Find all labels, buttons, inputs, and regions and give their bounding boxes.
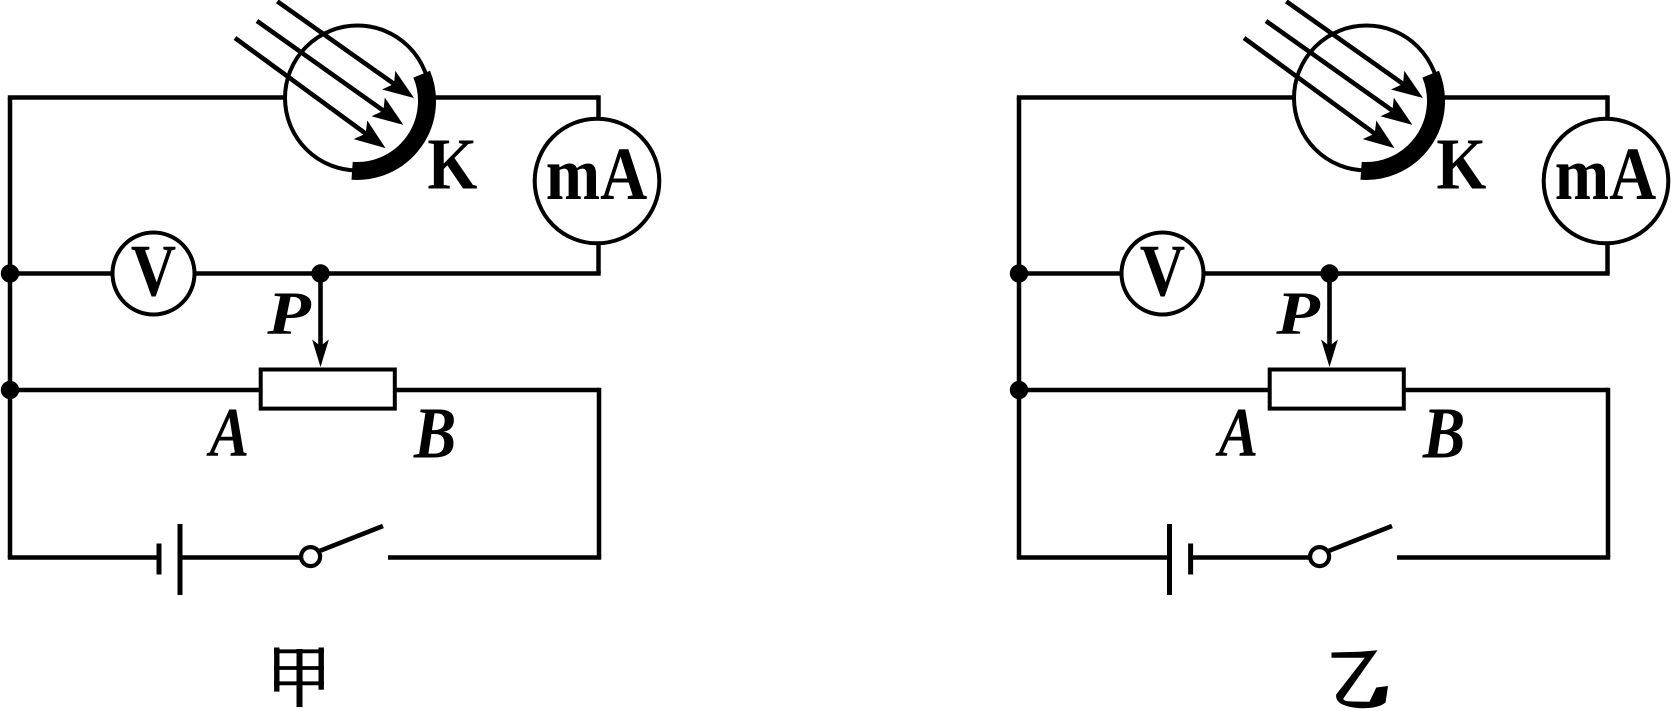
wire: battery to switch <box>1191 555 1311 560</box>
light ray 2 (middle) with arrowhead <box>1266 21 1396 113</box>
wiper arrow P (slider of rheostat) <box>1327 274 1332 349</box>
wire: top horizontal from left rail to milliammeter branch <box>8 95 599 100</box>
light ray 3 (bottom) with arrowhead <box>1244 38 1378 136</box>
wire: right rail vertical <box>597 388 602 558</box>
junction node: wiper tap on voltmeter row <box>1320 264 1338 282</box>
junction node: left rail / rheostat row <box>1 381 19 399</box>
light ray 3 (bottom) with arrowhead <box>235 38 369 136</box>
wire: bottom row left segment to battery <box>1017 555 1168 560</box>
wire: left rail vertical <box>1017 98 1022 558</box>
svg-text:B: B <box>413 392 456 473</box>
svg-text:A: A <box>206 395 249 473</box>
phototube envelope (vacuum photocell) <box>1294 26 1439 171</box>
label 甲 drawn as strokes <box>274 648 324 708</box>
wire: battery to switch <box>180 555 302 560</box>
circuit 甲 (left, forward-biased battery) <box>1 1 660 595</box>
switch pivot contact <box>1310 547 1329 566</box>
wire: mA bottom to voltmeter row <box>1605 242 1610 274</box>
circuit 乙 (right, reverse-biased battery) <box>1010 1 1669 595</box>
svg-text:P: P <box>266 281 311 348</box>
cathode K curved electrode <box>1361 74 1436 171</box>
junction node: left rail / voltmeter row <box>1 264 19 282</box>
light ray 2 (middle) with arrowhead <box>257 21 387 113</box>
svg-text:mA: mA <box>1555 133 1657 216</box>
wiper arrow P (slider of rheostat) <box>318 274 323 349</box>
svg-text:V: V <box>1140 230 1185 312</box>
voltmeter V <box>113 233 195 315</box>
label 乙 drawn as a filled path <box>1332 650 1389 708</box>
battery positive plate (long) <box>1167 524 1172 595</box>
battery negative plate (short) <box>157 544 162 575</box>
milliammeter mA <box>535 119 660 244</box>
junction node: left rail / rheostat row <box>1010 381 1028 399</box>
wire: mA bottom to voltmeter row <box>596 242 601 274</box>
svg-text:mA: mA <box>546 133 648 216</box>
phototube envelope (vacuum photocell) <box>285 26 430 171</box>
junction node: left rail / voltmeter row <box>1010 264 1028 282</box>
cathode K curved electrode <box>352 74 427 171</box>
rheostat resistor body A-B <box>261 370 395 409</box>
switch pivot contact <box>301 547 320 566</box>
svg-text:K: K <box>1436 124 1486 205</box>
wire: bottom row right segment from switch to right rail <box>388 555 601 560</box>
svg-text:V: V <box>131 230 176 312</box>
wire: voltmeter row horizontal <box>8 271 601 276</box>
svg-text:B: B <box>1422 392 1465 473</box>
wire: voltmeter row horizontal <box>1017 271 1610 276</box>
rheostat resistor body A-B <box>1270 370 1404 409</box>
wire: vertical drop into mA meter top <box>596 95 601 122</box>
wire: left rail vertical <box>8 98 13 558</box>
junction node: wiper tap on voltmeter row <box>311 264 329 282</box>
milliammeter mA <box>1544 119 1669 244</box>
wire: bottom row right segment from switch to right rail <box>1397 555 1610 560</box>
wire: right rail vertical <box>1606 388 1611 558</box>
battery negative plate (short) <box>1188 544 1193 575</box>
light ray 1 (top) with arrowhead <box>1286 1 1406 86</box>
wire: rheostat row horizontal <box>8 388 599 393</box>
voltmeter V <box>1122 233 1204 315</box>
wire: rheostat row horizontal <box>1017 388 1608 393</box>
battery positive plate (long) <box>178 524 183 595</box>
wire: vertical drop into mA meter top <box>1605 95 1610 122</box>
svg-text:K: K <box>427 124 477 205</box>
switch lever (open) <box>1329 526 1393 551</box>
switch lever (open) <box>320 526 384 551</box>
svg-text:P: P <box>1275 281 1320 348</box>
light ray 1 (top) with arrowhead <box>277 1 397 86</box>
wire: top horizontal from left rail to milliammeter branch <box>1017 95 1608 100</box>
wire: bottom row left segment to battery <box>8 555 159 560</box>
svg-text:A: A <box>1215 395 1258 473</box>
